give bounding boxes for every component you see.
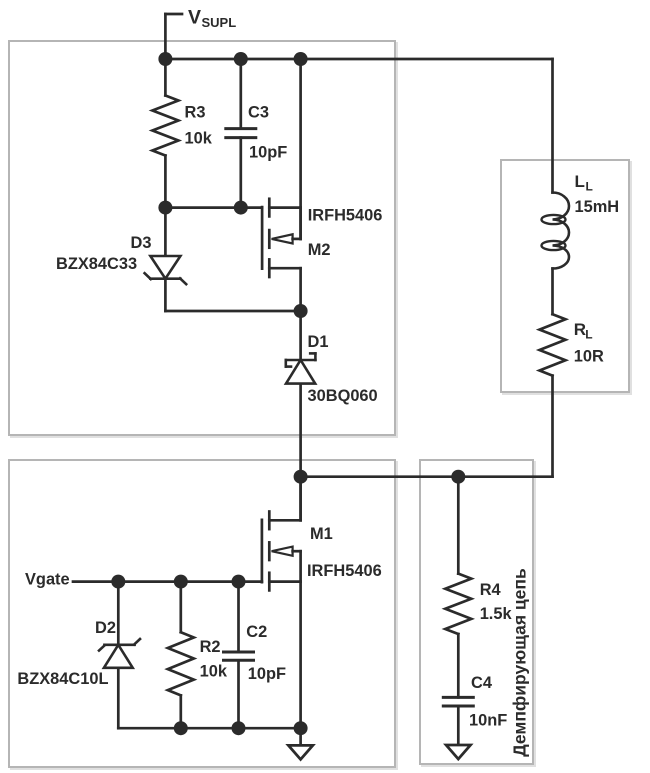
svg-text:R4: R4 <box>480 581 502 599</box>
svg-text:30BQ060: 30BQ060 <box>308 387 378 405</box>
svg-text:D2: D2 <box>95 619 116 637</box>
svg-text:L: L <box>585 327 592 341</box>
svg-text:15mH: 15mH <box>575 198 620 216</box>
svg-text:C2: C2 <box>246 623 267 641</box>
svg-text:C4: C4 <box>471 674 493 692</box>
svg-text:L: L <box>586 180 593 194</box>
svg-text:R2: R2 <box>200 638 221 656</box>
svg-text:V: V <box>188 7 201 29</box>
svg-text:10pF: 10pF <box>249 144 287 162</box>
svg-text:C3: C3 <box>248 104 269 122</box>
svg-text:BZX84C10L: BZX84C10L <box>17 670 108 688</box>
svg-text:10pF: 10pF <box>248 665 286 683</box>
svg-text:Демпфирующая цепь: Демпфирующая цепь <box>510 568 530 757</box>
svg-text:R3: R3 <box>185 104 206 122</box>
svg-text:D1: D1 <box>308 333 329 351</box>
svg-text:IRFH5406: IRFH5406 <box>308 207 383 225</box>
svg-text:M1: M1 <box>310 525 333 543</box>
svg-text:10k: 10k <box>185 130 213 148</box>
svg-text:10k: 10k <box>200 663 228 681</box>
svg-text:D3: D3 <box>131 234 152 252</box>
svg-text:L: L <box>575 172 585 191</box>
svg-text:M2: M2 <box>308 241 331 259</box>
svg-text:10R: 10R <box>574 348 604 366</box>
svg-text:BZX84C33: BZX84C33 <box>56 255 137 273</box>
svg-text:IRFH5406: IRFH5406 <box>307 562 382 580</box>
svg-text:1.5k: 1.5k <box>480 605 513 623</box>
svg-text:Vgate: Vgate <box>25 571 70 589</box>
svg-text:10nF: 10nF <box>469 712 507 730</box>
svg-text:SUPL: SUPL <box>202 15 237 30</box>
